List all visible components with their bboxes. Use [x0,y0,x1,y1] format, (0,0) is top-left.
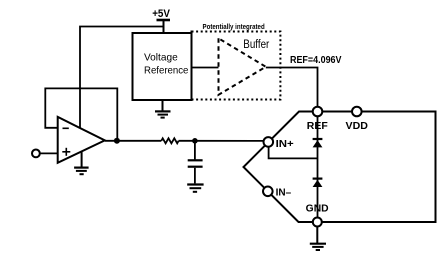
wire input to op-amp [40,152,58,154]
GND pin ground stem [316,227,318,244]
input terminal circle [32,150,40,158]
ground (GND pin) [310,244,326,250]
svg-text:Voltage: Voltage [144,52,178,64]
capacitor C1 stem [194,141,196,160]
svg-text:Potentially integrated: Potentially integrated [203,22,266,31]
svg-text:REF=4.096V: REF=4.096V [290,54,342,66]
diode chain wire REF to GND [317,116,319,217]
voltage reference box [133,33,192,100]
svg-text:IN–: IN– [276,188,292,199]
wire resistor to IN+ [179,140,264,142]
op-amp U1 triangle [58,117,105,163]
svg-text:+5V: +5V [152,8,170,20]
op-amp plus sign [62,151,70,153]
capacitor C1 [188,160,203,166]
svg-text:IN+: IN+ [276,139,294,150]
ground (voltage reference) [155,111,171,117]
dashed box (potentially integrated) [192,32,281,100]
diode D1 [313,139,323,147]
output node dot [114,138,120,144]
ADC outline [244,112,436,223]
svg-text:Reference: Reference [144,65,189,77]
wire buffer output to REF pin [266,68,318,107]
op-amp ground stem [81,152,83,167]
capacitor lower stem [194,168,196,184]
pin IN- [263,187,273,197]
svg-text:REF: REF [307,121,328,132]
+5V power bar [157,19,171,22]
node junction dot [192,138,198,144]
svg-text:GND: GND [306,204,329,215]
svg-text:Buffer: Buffer [243,39,269,51]
voltage reference ground stem [162,100,164,111]
wire +5V to op-amp supply [80,27,164,128]
wire reference to buffer [192,67,219,69]
diode D2 [313,179,323,187]
pin VDD [352,107,362,117]
wire IN+ internal to diode junction [269,147,318,159]
feedback wire loop [45,88,117,140]
+5V stem wire [163,20,165,33]
buffer op-amp (dashed triangle) [219,38,266,95]
wire op-amp output to resistor [105,140,162,142]
ground (capacitor) [187,185,203,192]
pin GND [313,218,322,227]
op-amp minus sign [63,127,69,129]
ground (op-amp) [74,168,89,175]
pin REF [313,107,323,117]
svg-text:VDD: VDD [346,121,368,132]
pin IN+ [264,137,274,147]
resistor R1 [161,138,178,143]
